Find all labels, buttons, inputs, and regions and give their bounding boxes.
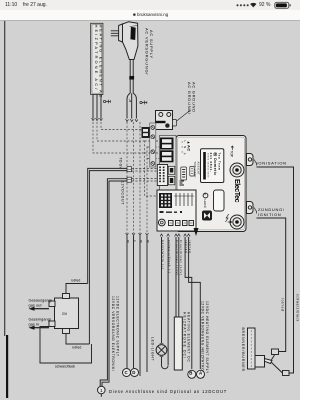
node A	[197, 370, 205, 378]
schwarz/black wire label right	[295, 294, 299, 322]
right lug top	[247, 154, 254, 166]
svg-text:1: 1	[100, 388, 103, 394]
cellular dots	[236, 4, 248, 6]
svg-text:AC SUPPLY: AC SUPPLY	[149, 30, 154, 59]
ignition electrode	[265, 355, 283, 373]
wire to node C	[126, 236, 128, 368]
svg-text:rot/red: rot/red	[184, 240, 188, 253]
wire color labels under unit	[161, 240, 192, 276]
clamp symbol near heater wires	[103, 100, 110, 104]
svg-text:12VDCOUT: 12VDCOUT	[120, 181, 124, 205]
svg-text:241 0841-: 241 0841-	[209, 153, 213, 173]
PCB brand logo (rotated)	[233, 179, 240, 203]
svg-text:sw: sw	[126, 240, 128, 243]
wire to node B	[185, 237, 192, 369]
svg-text:TOP VIEW/: TOP VIEW/	[193, 162, 197, 178]
svg-text:HEATING ELEMENT AC: HEATING ELEMENT AC	[98, 25, 103, 99]
wires from unit to DC heater	[176, 237, 179, 317]
ignition label and wire	[254, 207, 286, 352]
screw boss top	[230, 163, 244, 177]
AC ground label	[176, 82, 196, 122]
node C	[123, 369, 131, 377]
gas out arrow	[29, 299, 54, 311]
svg-text:AC VERSORGUNG/: AC VERSORGUNG/	[145, 28, 150, 75]
plug cable	[129, 60, 134, 94]
scan page border left	[4, 21, 8, 398]
wires below heating element	[92, 95, 103, 121]
svg-text:schwarz/black (-): schwarz/black (-)	[167, 240, 171, 274]
svg-text:IONISATION: IONISATION	[257, 161, 287, 166]
wifi icon	[250, 3, 256, 8]
svg-text:12VDC HEATING ELEMENT SUPPLY: 12VDC HEATING ELEMENT SUPPLY	[205, 301, 209, 374]
node D	[131, 369, 139, 377]
svg-text:rot/red: rot/red	[281, 298, 285, 311]
LED light wires	[151, 237, 169, 369]
wire to node A	[189, 237, 201, 369]
right lug bottom	[247, 202, 254, 214]
small connector pair right of pin-grid	[168, 166, 175, 185]
clamp symbol near AC supply wires	[140, 101, 147, 105]
svg-text:Top Team: Top Team	[218, 153, 222, 171]
svg-text:ElecTec: ElecTec	[233, 179, 240, 203]
ionisation label and wire	[254, 160, 294, 368]
screw and small connector left of bracket	[142, 120, 177, 139]
svg-text:AC GROUND: AC GROUND	[191, 82, 196, 113]
svg-text:12VDC VERSORGUNG ELEKTRONIK/: 12VDC VERSORGUNG ELEKTRONIK/	[111, 296, 115, 371]
GV red wire top	[66, 279, 88, 294]
svg-text:gas out: gas out	[29, 304, 43, 308]
gas valve GV	[49, 294, 79, 334]
GV red wire bottom	[66, 334, 89, 350]
svg-text:GV: GV	[62, 312, 68, 316]
bottom wedge on unit	[194, 228, 199, 236]
gas in arrow	[29, 318, 52, 330]
svg-text:B: B	[189, 370, 192, 375]
AC terminal block 1	[160, 138, 174, 150]
bottom arrowheads on dashed wires	[126, 233, 149, 236]
12VDCOUT connector and wires	[100, 177, 131, 387]
svg-text:braun/brown (12V): braun/brown (12V)	[179, 240, 183, 276]
svg-text:AC GROUND/: AC GROUND/	[187, 82, 192, 115]
dashed AC wiring (optional routing)	[93, 122, 168, 234]
svg-text:HEIZPATRONE DC/: HEIZPATRONE DC/	[182, 312, 186, 359]
cable split into 3 AC wires	[126, 93, 138, 122]
svg-text:HEIZPATRONE AC/: HEIZPATRONE AC/	[94, 25, 99, 92]
12VDC electronic supply labels	[111, 296, 120, 371]
svg-text:L N ⏚: L N ⏚	[183, 141, 188, 157]
svg-text:TOP: TOP	[230, 151, 234, 158]
TO GV connector and wires	[88, 158, 132, 345]
burner tube	[248, 328, 265, 369]
svg-text:schwarz/black: schwarz/black	[295, 294, 299, 322]
svg-text:Gasausgang/: Gasausgang/	[29, 299, 54, 303]
12VDC heating element supply labels	[200, 301, 208, 379]
svg-text:TO GV: TO GV	[118, 158, 122, 170]
svg-text:rot/red: rot/red	[188, 240, 192, 253]
battery icon	[275, 2, 291, 8]
svg-text:IGNITION: IGNITION	[258, 212, 281, 217]
svg-text:00000 000000 0000: 00000 000000 0000	[206, 153, 208, 178]
svg-text:12VDC VERSORGUNG HEIZPATRONE/: 12VDC VERSORGUNG HEIZPATRONE/	[200, 301, 204, 379]
small icons on unit left	[180, 167, 195, 186]
long wires to page bottom	[140, 236, 147, 376]
svg-text:12VDC ELECTRONIC SUPPLY: 12VDC ELECTRONIC SUPPLY	[115, 296, 119, 357]
svg-text:schwarz/black: schwarz/black	[55, 365, 75, 369]
heating element AC box	[91, 23, 104, 99]
screw boss bottom	[230, 215, 244, 229]
LED lamp symbol	[156, 343, 167, 356]
pin-grid connector	[157, 165, 167, 186]
mounting bracket with screw holes	[156, 111, 173, 130]
svg-text:Diese Anschlüsse sind Optional: Diese Anschlüsse sind Optional an 12DCOU…	[109, 389, 227, 394]
svg-text:rot/red: rot/red	[72, 346, 81, 350]
burner label	[241, 328, 245, 372]
sub-board (burner control)	[157, 190, 196, 231]
svg-text:HEATING ELEMENT DC: HEATING ELEMENT DC	[187, 312, 191, 363]
unit left flange	[160, 136, 177, 191]
AC supply label	[145, 28, 155, 75]
GV black wire loop	[40, 327, 92, 369]
svg-text:LED②: LED②	[203, 200, 207, 209]
AC plug	[111, 22, 138, 60]
AC markings on unit	[182, 141, 201, 178]
AC terminal block 2	[160, 150, 174, 162]
wire to node D	[133, 236, 136, 368]
rot/red wire label right	[281, 298, 285, 311]
svg-text:D: D	[132, 370, 135, 375]
svg-text:weiss/white (+): weiss/white (+)	[161, 240, 165, 270]
misc symbols on unit	[202, 190, 232, 223]
heating element DC box	[174, 312, 190, 370]
screw rail strip	[150, 123, 156, 167]
arrowheads where wires leave unit	[160, 234, 190, 237]
ionisation wire bottom run	[283, 367, 294, 376]
Dometic label (rotated)	[201, 149, 224, 183]
svg-text:Gaseingang/: Gaseingang/	[29, 318, 52, 322]
footnote text	[109, 389, 227, 394]
ignition wire connector	[272, 349, 279, 355]
svg-text:braun/brown (12V): braun/brown (12V)	[175, 240, 179, 276]
control unit U1 body	[176, 136, 246, 232]
node 1 circle	[98, 386, 106, 397]
node B	[188, 370, 196, 378]
TOP arrow marking	[230, 146, 234, 157]
svg-text:rot/red: rot/red	[71, 279, 80, 283]
svg-text:BRENNER/BURNER: BRENNER/BURNER	[241, 328, 245, 372]
svg-text:LED-LIGHT: LED-LIGHT	[151, 337, 155, 361]
